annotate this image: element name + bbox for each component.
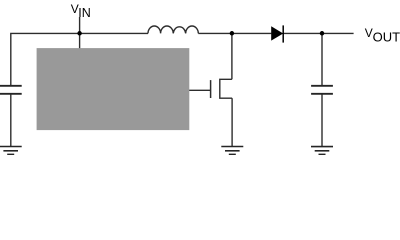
wire: VIN rail from left corner to inductor (11, 33, 148, 85)
svg-text:OUT: OUT (373, 30, 400, 45)
wire: source down to ground (231, 98, 233, 146)
node: switch node junction (230, 31, 235, 36)
IC U1 (unlabeled gray block) (37, 48, 190, 130)
ground (output side) (311, 147, 333, 155)
wire: input cap to ground (10, 94, 12, 146)
capacitor C1 (input, left edge) (0, 86, 22, 94)
ground (switch source) (221, 147, 243, 155)
inductor L1 (148, 26, 198, 33)
svg-text:IN: IN (78, 6, 91, 20)
wire: output cap to ground (321, 94, 323, 146)
capacitor C2 (output) (311, 86, 333, 94)
wire: gate lead from IC (189, 89, 211, 91)
ground (input side) (0, 147, 22, 155)
diode D1 (271, 25, 283, 42)
label VIN (71, 2, 91, 20)
node: VOUT junction (320, 31, 325, 36)
wire: VIN stub into IC (79, 17, 81, 49)
node: VIN junction (77, 31, 82, 36)
wire: inductor to diode anode (198, 32, 271, 34)
transistor (N-MOSFET switch): gate bar, channel with drain/source steps (211, 79, 233, 98)
wire: switch node down to drain (231, 33, 233, 79)
wire: VOUT node down to output cap (321, 33, 323, 85)
wire: diode cathode to VOUT (283, 32, 353, 34)
label VOUT (365, 26, 400, 45)
